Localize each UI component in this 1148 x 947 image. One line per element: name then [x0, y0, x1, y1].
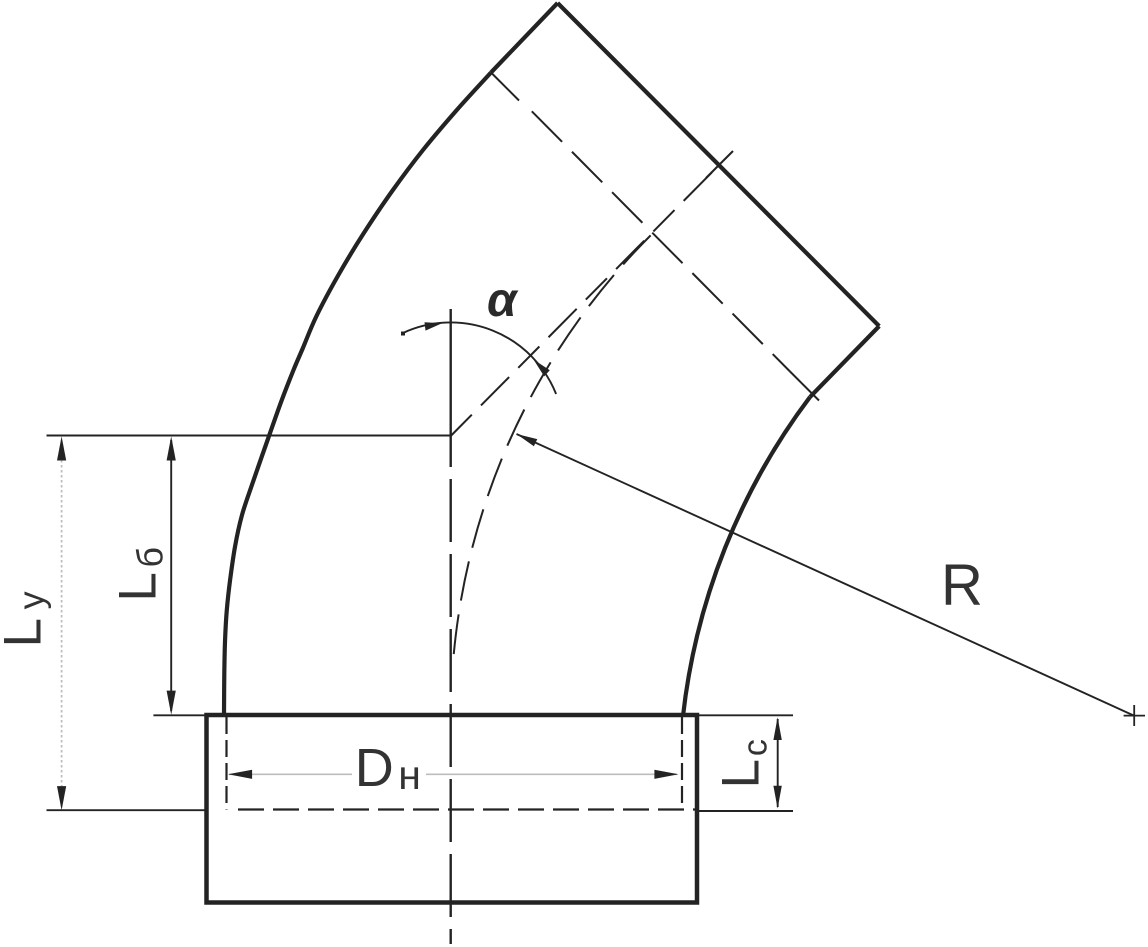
- arrow Lb bottom: [167, 691, 176, 715]
- svg-text:α: α: [487, 274, 519, 327]
- extension line bottom left: [47, 809, 207, 811]
- arrow Ly bottom: [57, 786, 66, 810]
- extension line top (vertex level): [47, 435, 451, 437]
- dimension line Dn left segment: [229, 773, 352, 775]
- angle arc alpha: [403, 322, 556, 394]
- arrow Lb top: [167, 436, 176, 460]
- weld plane dashed line: [532, 111, 790, 371]
- elbow inner straight edge: [810, 326, 879, 397]
- dimension line Lc: [777, 719, 779, 807]
- extension line Lc top: [697, 714, 793, 716]
- dimension line Dn right segment: [426, 773, 677, 775]
- elbow end face: [558, 3, 880, 326]
- arrow alpha axis: [534, 360, 550, 377]
- vertical centerline: [450, 309, 452, 467]
- elbow inner arc: [683, 397, 810, 716]
- arrow Lc top: [773, 717, 781, 740]
- sleeve rectangle: [207, 715, 698, 903]
- elbow outer arc: [224, 73, 491, 717]
- extension line Lc bottom: [697, 810, 793, 812]
- extension line Lb bottom: [153, 714, 206, 716]
- arrow Ly top: [57, 436, 66, 460]
- svg-text:R: R: [941, 553, 983, 618]
- arrow alpha vertical: [425, 322, 443, 330]
- axis tick at end face: [706, 151, 733, 178]
- weld tick lower-right: [790, 372, 819, 401]
- bend axis dashed arc: [453, 235, 652, 665]
- hidden pipe edge left (dashed): [225, 717, 227, 810]
- elbow outer straight edge: [491, 3, 558, 73]
- radius line R: [517, 434, 1134, 716]
- hidden pipe edge right (dashed): [681, 717, 683, 810]
- pipe axis dashed line: [451, 166, 719, 436]
- arrow Dn left: [228, 770, 252, 779]
- weld tick upper-left: [491, 73, 519, 101]
- hidden pipe end face (dashed): [238, 808, 696, 810]
- arrow Dn right: [654, 770, 678, 779]
- alpha arc end dot: [401, 332, 405, 336]
- dimension line Ly: [61, 440, 63, 807]
- bend center cross: [1124, 705, 1145, 726]
- arrow Lc bottom: [773, 786, 781, 809]
- dimension line Lb: [170, 440, 172, 711]
- arrow R: [517, 434, 538, 446]
